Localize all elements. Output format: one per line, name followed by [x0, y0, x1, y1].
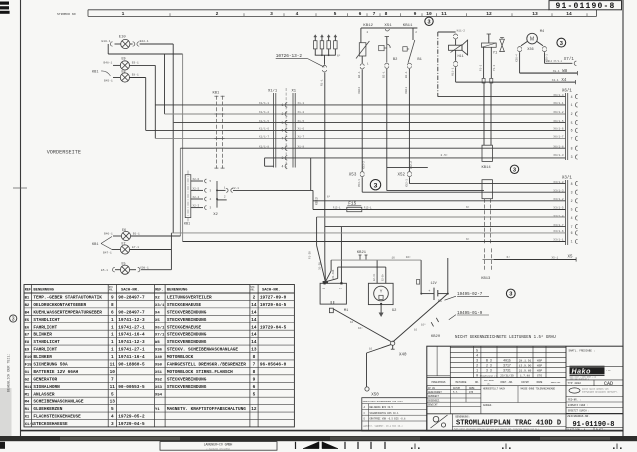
svg-text:X2-3: X2-3: [193, 205, 200, 208]
wire riser x180.4 long gray: [179, 148, 181, 236]
svg-text:7: 7: [282, 137, 284, 141]
svg-text:FLACHSTECKGEHAEUSE: FLACHSTECKGEHAEUSE: [33, 415, 81, 420]
svg-text:BELIEBIG BIS ±0.5: BELIEBIG BIS ±0.5: [370, 406, 394, 409]
wire E6 right lead label E6-1: [131, 233, 181, 236]
node circled-3 marker: [370, 180, 380, 190]
svg-text:1: 1: [571, 103, 573, 107]
wire W8 with labels X8-1 W8: [520, 70, 578, 75]
svg-text:3717: 3717: [503, 364, 511, 368]
svg-text:1: 1: [111, 318, 114, 323]
svg-text:MOTORBLOCK STIRNS.FLANSCH: MOTORBLOCK STIRNS.FLANSCH: [167, 370, 233, 375]
sheet left border: [20, 0, 22, 437]
svg-text:EINSATZ FUER :: EINSATZ FUER :: [568, 404, 588, 407]
wire X3/1-6 from lamp riser: [171, 232, 565, 234]
svg-text:W8: W8: [155, 341, 160, 345]
svg-text:1: 1: [476, 370, 478, 374]
svg-text:E10: E10: [25, 356, 33, 360]
svg-text:2: 2: [253, 296, 256, 301]
svg-text:3: 3: [374, 182, 378, 189]
connector X1/1 pin 8: [259, 144, 305, 150]
svg-text:6: 6: [571, 231, 573, 235]
svg-text:STECKVERBINDUNG: STECKVERBINDUNG: [167, 385, 207, 390]
wire E10 left branch y54: [108, 53, 182, 55]
svg-text:REF.: REF.: [25, 289, 33, 293]
wire E9 right lead label E9-1: [129, 62, 155, 66]
svg-text:X51: X51: [155, 371, 163, 375]
svg-text:X1/1-5: X1/1-5: [259, 119, 269, 123]
label KB1 upper-left with leader: [92, 71, 111, 77]
svg-text:ERSETZT DURCH :: ERSETZT DURCH :: [568, 410, 590, 413]
svg-text:BENENNUNG: BENENNUNG: [33, 289, 54, 293]
svg-text:PRUEFMASS: PRUEFMASS: [431, 381, 445, 384]
svg-text:M4: M4: [540, 30, 544, 34]
wire E10 left lead with label E10-1: [102, 40, 122, 54]
svg-text:2: 2: [571, 112, 573, 116]
svg-text:X6/1-5: X6/1-5: [553, 119, 563, 123]
svg-text:G2: G2: [392, 309, 397, 313]
svg-text:F1-1: F1-1: [480, 64, 483, 71]
svg-text:Hako: Hako: [572, 369, 592, 376]
film footer label box LANGNER+CO GMBH: [160, 442, 277, 451]
svg-text:NAME: NAME: [537, 381, 543, 384]
svg-text:KUEHLWASSERTEMPERATURGEBER: KUEHLWASSERTEMPERATURGEBER: [33, 310, 102, 315]
svg-text:14: 14: [251, 303, 257, 308]
fuse F15 sicherung 50A: [333, 202, 470, 212]
connector X6/1 pin 3: [553, 153, 577, 159]
wire B1 to XS2 labels B1-1 KB11: [405, 63, 411, 171]
svg-text:1.7.88: 1.7.88: [520, 375, 530, 378]
node X50 fahrgestell: [365, 387, 379, 398]
svg-text:6²: 6²: [466, 238, 470, 241]
svg-text:3: 3: [571, 190, 573, 194]
wire glow plug common rail: [315, 54, 341, 57]
relay KB13 rails lower: [481, 248, 493, 281]
svg-text:KB1: KB1: [92, 71, 98, 75]
svg-text:E6-1: E6-1: [133, 233, 140, 236]
svg-text:B47-1: B47-1: [103, 251, 112, 254]
svg-text:19729-04-5: 19729-04-5: [118, 422, 145, 427]
connector X1/1 pin 7: [259, 135, 305, 141]
svg-text:F15: F15: [25, 364, 33, 368]
svg-text:B1-1: B1-1: [405, 71, 408, 78]
svg-text:1: 1: [111, 333, 114, 338]
svg-text:B 3: B 3: [486, 359, 492, 363]
battery G1 12V: [417, 280, 449, 304]
svg-text:B42-1: B42-1: [140, 40, 149, 43]
svg-text:X6/1-2: X6/1-2: [553, 110, 563, 114]
svg-text:19729-04-5: 19729-04-5: [260, 325, 287, 330]
connector X1/1 pin 6: [259, 127, 305, 133]
connector X1/1 pin 2: [259, 110, 305, 116]
svg-text:GTO: GTO: [537, 375, 542, 378]
svg-text:16: 16: [350, 321, 354, 324]
svg-text:G2-B+: G2-B+: [382, 273, 385, 281]
wire X6/1-3 with gauge 2.5: [265, 154, 566, 158]
svg-text:B46-1: B46-1: [104, 233, 113, 236]
relay KB20 contact on diagonal to node: [393, 294, 448, 342]
wire B4 to XS3 labels B4-1 KB12: [358, 56, 364, 171]
connector X1/1 pin 3: [282, 156, 288, 160]
sheet bottom border: [21, 430, 624, 432]
svg-text:ANL: ANL: [109, 289, 114, 292]
svg-text:8: 8: [571, 182, 573, 186]
svg-text:X53-1: X53-1: [358, 179, 361, 187]
svg-text:X3/1: X3/1: [155, 303, 165, 308]
svg-text:3: 3: [282, 156, 284, 160]
connector XS3 X53: [349, 161, 366, 192]
svg-text:B1: B1: [417, 58, 422, 62]
svg-text:3: 3: [476, 360, 478, 364]
svg-text:4: 4: [282, 164, 284, 168]
wire second feed row y267 to G2: [338, 267, 386, 278]
distributor X2 tap X2-6: [191, 178, 212, 183]
svg-text:90-28497-7: 90-28497-7: [118, 296, 145, 301]
wire KB21 row gray with gauges: [331, 256, 421, 271]
svg-text:E8: E8: [25, 341, 30, 345]
svg-text:LEITUNGSVERTEILER: LEITUNGSVERTEILER: [167, 296, 212, 301]
svg-text:16²: 16²: [421, 324, 426, 327]
svg-text:2 HAMBURG MESSBERG: 2 HAMBURG MESSBERG: [206, 447, 230, 450]
svg-text:SICHERUNG 50A: SICHERUNG 50A: [33, 363, 68, 368]
svg-text:M: M: [530, 37, 534, 43]
svg-text:X4-1: X4-1: [552, 79, 559, 82]
svg-text:X1/1-1: X1/1-1: [259, 101, 269, 105]
svg-text:X53-2: X53-2: [363, 161, 366, 169]
svg-text:E9: E9: [25, 349, 30, 353]
svg-text:X52: X52: [398, 173, 406, 177]
svg-text:19741-16-4: 19741-16-4: [118, 333, 145, 338]
svg-text:ZEICHNUNGS-NR.: ZEICHNUNGS-NR.: [567, 415, 590, 418]
svg-text:KB11: KB11: [405, 86, 408, 93]
wire B2 down label B2-1: [383, 63, 484, 190]
svg-text:M1: M1: [25, 393, 30, 397]
svg-text:X1/1-8: X1/1-8: [259, 144, 269, 148]
svg-text:4: 4: [476, 355, 478, 359]
svg-text:6: 6: [253, 385, 256, 390]
svg-text:HERGESTELLT NACH: HERGESTELLT NACH: [483, 388, 506, 391]
connector X1/1 pin 4: [282, 164, 288, 168]
svg-text:MAGNETV. KRAFTSTOFFABSCHALTUNG: MAGNETV. KRAFTSTOFFABSCHALTUNG: [167, 407, 246, 412]
svg-text:X3/1-4: X3/1-4: [553, 214, 563, 218]
svg-text:X5: X5: [155, 319, 160, 323]
svg-text:4: 4: [571, 216, 573, 220]
svg-text:3 3: 3 3: [486, 369, 492, 373]
svg-text:X1-6: X1-6: [298, 128, 305, 131]
svg-text:KB1: KB1: [92, 243, 98, 247]
svg-text:1: 1: [282, 103, 284, 107]
fed-nr einsatz ersetzt rows: [566, 399, 623, 414]
svg-text:B2: B2: [393, 58, 398, 62]
svg-text:E10-1: E10-1: [102, 40, 111, 43]
wires into G2 from above: [373, 260, 386, 283]
glow plug R1 element 3: [327, 35, 331, 56]
svg-text:SIGNALHORN: SIGNALHORN: [33, 385, 60, 390]
junction rail X2 outputs: [216, 181, 218, 208]
svg-text:X1-2: X1-2: [298, 111, 305, 114]
svg-text:X40: X40: [399, 354, 407, 358]
svg-text:8: 8: [571, 146, 573, 150]
wire R1 drop with connector R1-1: [320, 55, 326, 261]
svg-text:ROHT.-NR.: ROHT.-NR.: [501, 381, 514, 384]
svg-text:E5: E5: [122, 263, 126, 267]
svg-text:F1-30: F1-30: [309, 251, 312, 259]
connector X3/1 pin 2: [553, 197, 577, 203]
film footer tick marks: [0, 442, 622, 449]
connector X6/1 pin 4: [553, 93, 577, 99]
svg-text:EMPFAENGER BESONDERS GEPRUEFT.: EMPFAENGER BESONDERS GEPRUEFT.: [582, 391, 618, 394]
connector X6/1 pin 1: [553, 101, 577, 107]
svg-text:X4: X4: [155, 311, 160, 315]
svg-text:KB14: KB14: [482, 166, 492, 170]
revision table: [450, 346, 566, 386]
svg-text:X8-1: X8-1: [553, 70, 560, 73]
svg-text:GRATFREI VON -0.5 BIS -0.8: GRATFREI VON -0.5 BIS -0.8: [370, 418, 406, 421]
connector X3/1 pin 5: [553, 206, 577, 212]
wire bus X1-8 / X6/1-8: [180, 147, 565, 149]
svg-text:B2: B2: [25, 304, 30, 308]
wire X6/1-4 horn feed: [438, 96, 566, 98]
zeichnungs-nr cell 91-01190-8: [566, 415, 623, 431]
svg-text:19741-16-4: 19741-16-4: [118, 355, 145, 360]
svg-text:X36-4: X36-4: [515, 54, 518, 62]
svg-text:H11-1: H11-1: [451, 67, 454, 76]
svg-text:E8-1: E8-1: [132, 74, 139, 77]
svg-text:XS1: XS1: [384, 24, 392, 28]
svg-text:6²: 6²: [327, 196, 331, 199]
wire node to X50: [367, 345, 391, 387]
sheet right border: [622, 0, 624, 437]
svg-text:VORDERSEITE: VORDERSEITE: [47, 150, 81, 156]
svg-text:X2-1: X2-1: [232, 187, 239, 190]
label 19495-01-9 with leader: [449, 312, 489, 320]
svg-text:6: 6: [111, 310, 114, 315]
title block left column rows: [427, 378, 481, 431]
svg-text:HSP: HSP: [537, 360, 543, 363]
wire X3/1-3 from XS3: [362, 191, 565, 193]
svg-text:BENENNUNG:: BENENNUNG:: [456, 416, 470, 419]
svg-text:5: 5: [111, 392, 114, 397]
wire E5 right lead label X08-1: [130, 266, 172, 272]
svg-text:7: 7: [571, 137, 573, 141]
wire bus X1-7 / X6/1-7 gray: [155, 137, 565, 139]
svg-text:SACH-NR.: SACH-NR.: [121, 289, 139, 293]
svg-text:X5-1: X5-1: [552, 256, 559, 259]
label KB1 lower-left with leader: [92, 237, 112, 250]
svg-text:1: 1: [122, 11, 125, 17]
wire horn feed riser dash-dot: [438, 32, 456, 97]
svg-text:5.7.: 5.7.: [453, 391, 459, 394]
scan artifact: dark film band bottom: [0, 436, 637, 441]
svg-text:FUER DIESE ZEICHNUNG BEHALTEN: FUER DIESE ZEICHNUNG BEHALTEN WIR UNS AL…: [454, 428, 539, 431]
svg-text:MOTORBLOCK: MOTORBLOCK: [167, 355, 194, 360]
connector X6/1 pin 7: [553, 135, 577, 141]
wire E5 left lead label E5-1: [101, 268, 120, 273]
connector X1/1 pin4 stub wire: [265, 158, 274, 166]
svg-text:X6/1-7: X6/1-7: [553, 135, 563, 139]
svg-text:NAME: NAME: [469, 387, 475, 390]
svg-text:11: 11: [110, 385, 116, 390]
parts table: [24, 285, 294, 428]
connector XS2 X52: [398, 161, 413, 187]
connector X1/1 pin 1: [259, 101, 305, 107]
svg-text:SACH-NR.: SACH-NR.: [262, 289, 280, 293]
svg-text:6²: 6²: [337, 55, 341, 58]
svg-text:X1: X1: [25, 416, 30, 420]
svg-text:6: 6: [571, 129, 573, 133]
svg-text:3: 3: [111, 422, 114, 427]
wire mid distribution: [311, 158, 428, 191]
lamp E8 standlicht: [120, 70, 129, 82]
svg-text:2: 2: [282, 112, 284, 116]
film footer triangle marker left: [303, 442, 319, 449]
svg-text:90-18860-5: 90-18860-5: [118, 363, 145, 368]
svg-text:9: 9: [111, 296, 114, 301]
svg-text:FED-NR. :: FED-NR. :: [568, 399, 581, 402]
wire riser B x155.3 from E9: [154, 65, 156, 138]
connector X6/1 pin 2: [553, 110, 577, 116]
wire X3/1-4: [317, 216, 566, 218]
svg-text:X40: X40: [155, 356, 163, 360]
svg-text:96-05646-0: 96-05646-0: [260, 363, 287, 368]
svg-text:WERKSTUECK-AUSGENOMMEN DIN 678: WERKSTUECK-AUSGENOMMEN DIN 6784: [363, 400, 404, 403]
svg-text:B48-1: B48-1: [104, 62, 113, 65]
svg-text:R1: R1: [25, 408, 30, 412]
svg-text:3: 3: [427, 19, 430, 25]
svg-text:STROMKR NO: STROMKR NO: [57, 12, 76, 16]
connector X3/1 pin 8: [553, 180, 577, 186]
wire drop to M1 pin 31: [340, 227, 342, 284]
svg-text:3: 3: [571, 155, 573, 159]
svg-text:STECKVERBINDUNG: STECKVERBINDUNG: [167, 340, 207, 345]
glow plug R1 element 2: [320, 35, 324, 56]
svg-text:X7/1: X7/1: [564, 57, 575, 62]
svg-text:ANL: ANL: [250, 289, 255, 292]
svg-text:G2: G2: [25, 378, 30, 382]
connector X3/1 rails: [562, 175, 573, 245]
svg-text:X6/1: X6/1: [155, 325, 165, 330]
svg-text:IP 09: IP 09: [428, 387, 436, 390]
svg-text:NR.: NR.: [487, 382, 491, 385]
hako logo: [570, 366, 611, 380]
wire battery plus riser: [447, 258, 449, 294]
switch B2 oeldruckkontaktgeber: [379, 37, 398, 63]
svg-text:8: 8: [111, 303, 114, 308]
svg-text:6: 6: [359, 11, 362, 17]
svg-text:19741-27-1: 19741-27-1: [118, 325, 145, 330]
svg-text:BLINKER: BLINKER: [33, 333, 52, 338]
svg-text:16²: 16²: [358, 327, 363, 330]
svg-text:G1: G1: [25, 371, 30, 375]
svg-text:19729-04-5: 19729-04-5: [260, 303, 287, 308]
svg-text:X1: X1: [292, 90, 297, 94]
wire starter to node diagonal: [334, 309, 391, 342]
svg-text:B4: B4: [25, 311, 30, 315]
lamp E5 standlicht lower: [120, 263, 129, 275]
wire riser x182.6 long gray: [182, 54, 184, 242]
svg-text:KB14 X7/1-1: KB14 X7/1-1: [546, 60, 562, 63]
svg-text:8: 8: [253, 370, 256, 375]
svg-text:12: 12: [251, 407, 257, 412]
svg-text:FAHRLICHT: FAHRLICHT: [33, 325, 57, 330]
wire long drop to starter fan: [309, 217, 317, 259]
svg-text:MASSE OHNE TOLERANZANGABE: MASSE OHNE TOLERANZANGABE: [521, 388, 556, 391]
wire relay coil bar KB12 XS1 KB11: [361, 24, 418, 31]
svg-text:FAHRGESTELL DREHSKR./BEGRENZER: FAHRGESTELL DREHSKR./BEGRENZER: [167, 363, 246, 368]
title block outer frame: [427, 346, 623, 431]
svg-text:X2-6: X2-6: [193, 178, 200, 181]
svg-text:+ CO: + CO: [606, 370, 610, 372]
svg-text:X7/1: X7/1: [155, 333, 165, 338]
svg-text:5: 5: [253, 392, 256, 397]
svg-text:X1-1: X1-1: [298, 102, 305, 105]
svg-text:0: 0: [476, 375, 478, 379]
scan artifact: gray strip bottom-left margin: [0, 388, 12, 436]
svg-text:OELDRUCKKONTAKTGEBER: OELDRUCKKONTAKTGEBER: [33, 303, 86, 308]
svg-text:BLATT :: BLATT :: [596, 428, 606, 431]
svg-text:X1-8: X1-8: [298, 145, 305, 148]
svg-text:GEZEICHNET: GEZEICHNET: [428, 391, 442, 394]
svg-text:4015: 4015: [503, 359, 511, 363]
svg-text:3: 3: [12, 316, 15, 322]
wire X2-1 run to distribution: [213, 186, 313, 217]
connector X1/1 X1 rails: [268, 88, 297, 170]
svg-text:BATTERIE 12V 66AH: BATTERIE 12V 66AH: [33, 370, 78, 375]
svg-text:E7-1: E7-1: [132, 246, 139, 249]
svg-text:3: 3: [513, 167, 516, 173]
svg-text:LANGNER+CO GMBH: LANGNER+CO GMBH: [204, 443, 233, 447]
wire E7 left lead label B47-1: [103, 250, 120, 255]
lamp E7 blinker lower: [120, 242, 129, 254]
ground symbol below G2: [379, 303, 383, 317]
connector X3/1 pin 3: [553, 188, 577, 194]
svg-text:W8: W8: [562, 70, 568, 74]
svg-text:GEGENGEZ.: GEGENGEZ.: [428, 399, 440, 402]
svg-text:6²: 6²: [466, 206, 470, 209]
svg-text:3731: 3731: [503, 369, 511, 373]
svg-text:KB11: KB11: [403, 24, 413, 28]
svg-text:METHODE: METHODE: [456, 381, 467, 384]
svg-text:90-28497-7: 90-28497-7: [118, 310, 145, 315]
svg-text:11: 11: [441, 11, 447, 17]
svg-text:STECKV. SCHEIBENWASCHANLAGE: STECKV. SCHEIBENWASCHANLAGE: [167, 348, 239, 353]
svg-text:STECKGEHAEUSE: STECKGEHAEUSE: [33, 422, 68, 427]
svg-text:X54: X54: [155, 393, 163, 397]
svg-text:STANDLICHT: STANDLICHT: [33, 340, 60, 345]
svg-text:E6: E6: [25, 326, 30, 330]
svg-text:STECKGEHAEUSE: STECKGEHAEUSE: [167, 303, 202, 308]
svg-text:B1: B1: [25, 297, 30, 301]
wire E8 right lead label E8-1: [129, 74, 145, 78]
svg-text:FREI-NR.: FREI-NR.: [551, 381, 562, 384]
svg-text:DATUM: DATUM: [453, 387, 461, 390]
svg-text:B45-1: B45-1: [104, 80, 113, 83]
svg-text:14: 14: [251, 325, 257, 330]
svg-text:7: 7: [111, 377, 114, 382]
svg-text:2 3: 2 3: [486, 364, 492, 368]
svg-text:R1-1: R1-1: [320, 79, 323, 86]
svg-text:AUSGEZ.: AUSGEZ.: [483, 404, 493, 407]
svg-text:M1: M1: [344, 309, 349, 313]
wire X5 with labels: [494, 256, 576, 262]
node circled-3 marker: [510, 165, 518, 173]
wire E10 right lead label B42-1: [130, 40, 173, 46]
top-right drawing number box 91-01190-8: [549, 1, 622, 12]
wiper motor M4 X36: [527, 30, 544, 52]
connector X3/1 pin 1: [553, 238, 577, 244]
wire M4 left lead label X36-4: [515, 42, 527, 74]
valve Y1 magnetventil: [482, 34, 505, 56]
connector X6/1 pin 8: [553, 144, 577, 150]
